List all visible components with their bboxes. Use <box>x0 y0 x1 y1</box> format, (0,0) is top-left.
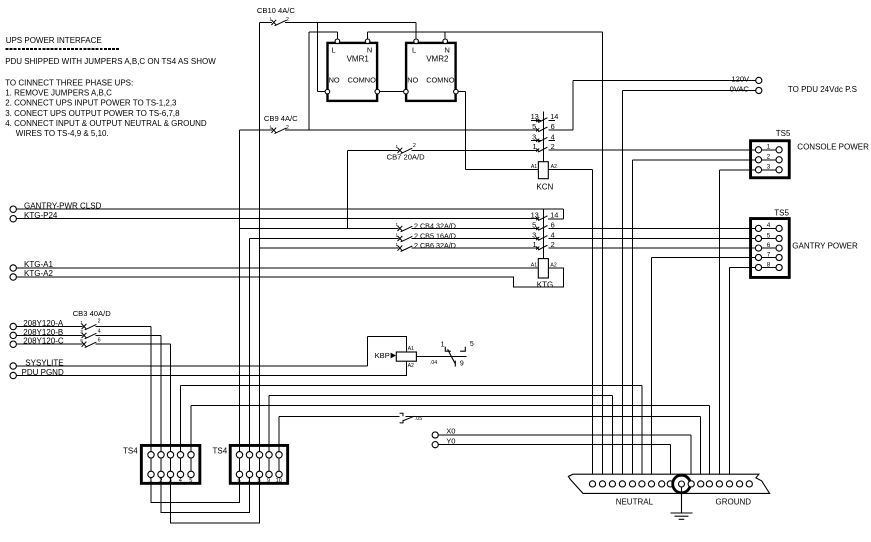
svg-text:A2: A2 <box>551 164 557 170</box>
svg-text:4: 4 <box>767 222 771 229</box>
svg-text:1: 1 <box>396 242 399 247</box>
terminal TS5-5 left <box>755 235 761 241</box>
main bonding jumper circle <box>673 475 691 493</box>
svg-text:KBP: KBP <box>375 351 390 360</box>
wire TS4-1 column riser x=151 <box>150 327 152 475</box>
svg-text:N: N <box>367 46 372 55</box>
terminal TS4-6 top <box>236 452 242 458</box>
terminal TS4-4 top <box>177 452 183 458</box>
wire CB9 output to KCN contact 5 <box>285 129 537 131</box>
circuit breaker CB9 4A/C <box>271 128 286 134</box>
svg-text:NEUTRAL: NEUTRAL <box>616 497 654 506</box>
svg-text:A2: A2 <box>408 363 414 369</box>
terminal TS4-9 top <box>266 452 272 458</box>
terminal TS4-6 bottom <box>236 471 242 477</box>
terminal TS4-8 top <box>256 452 262 458</box>
terminal neutral bus 8 <box>659 481 665 487</box>
wire jumper B TS4-2 to TS4-7 <box>161 474 250 512</box>
contact KCN 4 bar <box>549 139 556 141</box>
terminal KTG-P24 <box>10 216 16 222</box>
circuit breaker CB4 32A/D <box>398 226 413 232</box>
svg-text:.05: .05 <box>415 416 423 422</box>
circuit breaker CB10 4A/C <box>271 20 286 26</box>
terminal COMNO VMR2 <box>454 89 459 94</box>
terminal TS5-6 right <box>776 245 782 251</box>
wire KCN contact6 to 120V riser x=572.9 <box>572 80 574 129</box>
svg-text:9: 9 <box>460 360 464 367</box>
terminal strip TS5 gantry box <box>751 219 790 278</box>
wire TS5-7 to neutral bus x=651.5 <box>651 258 653 481</box>
terminal 0VAC <box>756 87 762 93</box>
terminal TS5-2 left <box>755 157 761 163</box>
wire TS5-2 internal link <box>762 159 776 161</box>
wire 208Y120-B input <box>16 334 82 336</box>
wire CB7 feed riser x=347.4 <box>346 150 348 228</box>
wire KBP contact output y=356.4 <box>416 355 466 357</box>
terminal TS4-7 top <box>246 452 252 458</box>
svg-text:13: 13 <box>531 210 539 219</box>
svg-text:4: 4 <box>551 231 555 240</box>
svg-text:6: 6 <box>551 220 555 229</box>
wire to VMR1 L terminal <box>336 32 338 39</box>
terminal TS4-2 top <box>158 452 164 458</box>
auxiliary switch .05 <box>400 413 415 423</box>
dashed separator <box>6 48 120 50</box>
contact blade KTG 3-4 <box>536 236 547 241</box>
wire TS4-10 to ground bus x=700.7 <box>700 416 702 481</box>
contact KCN 3 bar <box>531 139 541 141</box>
svg-text:TS5: TS5 <box>774 209 789 218</box>
svg-text:1: 1 <box>269 17 272 22</box>
svg-text:GANTRY-PWR CLSD: GANTRY-PWR CLSD <box>24 202 102 211</box>
svg-text:TS4: TS4 <box>213 446 228 455</box>
terminal L VMR1 <box>335 39 340 44</box>
terminal TS5-1 left <box>755 147 761 153</box>
svg-text:6: 6 <box>98 337 101 343</box>
svg-text:1. REMOVE JUMPERS A,B,C: 1. REMOVE JUMPERS A,B,C <box>5 88 112 97</box>
terminal SYSYLITE <box>10 363 16 369</box>
svg-text:GROUND: GROUND <box>716 497 752 506</box>
terminal NO VMR2 <box>404 89 409 94</box>
svg-text:4: 4 <box>98 329 101 335</box>
wire CB3-C output to TS4-3 <box>96 343 171 345</box>
wire N line to neutral bus x=602.5 <box>602 32 604 481</box>
circuit breaker CB7 20A/D <box>398 148 413 154</box>
svg-text:5: 5 <box>80 338 83 343</box>
neutral-ground bus bar <box>568 474 769 493</box>
svg-text:VMR2: VMR2 <box>426 55 449 64</box>
wire TS4-2 column riser x=161 <box>160 335 162 474</box>
svg-text:TO PDU 24Vdc P.S: TO PDU 24Vdc P.S <box>788 85 857 94</box>
svg-text:2: 2 <box>767 154 771 161</box>
ground symbol <box>671 487 693 519</box>
terminal neutral bus 4 <box>619 481 625 487</box>
wire KTG-A2 loop <box>16 268 563 287</box>
terminal TS5-3 right <box>776 167 782 173</box>
svg-text:208Y120-C: 208Y120-C <box>23 337 64 346</box>
wire 208Y120-A input <box>16 326 82 328</box>
svg-text:4: 4 <box>179 478 182 484</box>
wire CB4 output to KTG contact 5 <box>412 227 537 229</box>
terminal TS4-7 bottom <box>246 471 252 477</box>
svg-text:GANTRY POWER: GANTRY POWER <box>792 242 858 251</box>
svg-text:L: L <box>332 46 336 55</box>
contact blade KCN 3-4 <box>536 137 547 142</box>
svg-text:SYSYLITE: SYSYLITE <box>25 358 63 367</box>
terminal neutral bus 1 <box>589 481 595 487</box>
svg-text:4. CONNECT INPUT & OUTPUT NEUT: 4. CONNECT INPUT & OUTPUT NEUTRAL & GROU… <box>5 119 207 128</box>
svg-text:2 CB4 32A/D: 2 CB4 32A/D <box>414 221 456 230</box>
terminal N VMR1 <box>365 39 370 44</box>
svg-text:KTG-A1: KTG-A1 <box>24 260 53 269</box>
wire TS5-7 internal link <box>762 257 776 259</box>
wire TS5-2 to neutral bus x=632.5 <box>632 160 634 481</box>
wire KTG-P24 to KTG contact 13 y=218.7 <box>16 218 537 220</box>
svg-text:5: 5 <box>532 122 536 131</box>
svg-text:3: 3 <box>169 478 172 484</box>
terminal TS4-10 top <box>276 452 282 458</box>
wire TS4-10 ground feed y=416.4 <box>279 415 399 417</box>
terminal neutral bus 3 <box>609 481 615 487</box>
svg-text:CB3 40A/D: CB3 40A/D <box>73 309 112 318</box>
svg-text:8: 8 <box>767 261 771 268</box>
wire KTG contact centerline <box>543 209 545 258</box>
wire TS4-3 column riser x=170.5 <box>170 344 172 474</box>
wire 0VAC to neutral bus x=622.4 <box>621 91 623 481</box>
svg-text:5: 5 <box>767 232 771 239</box>
svg-text:1: 1 <box>532 240 536 249</box>
wire TS4-9 neutral feed y=395.6 <box>269 395 612 397</box>
terminal TS5-7 left <box>755 254 761 260</box>
terminal ground bus 7 <box>746 481 752 487</box>
terminal TS4-8 bottom <box>256 471 262 477</box>
svg-text:N: N <box>445 46 450 55</box>
wire TS5-8 internal link <box>762 267 776 269</box>
relay coil KCN <box>538 162 548 179</box>
svg-text:A2: A2 <box>550 262 556 268</box>
wire TS4-7 column riser x=249.5 <box>249 239 251 475</box>
svg-text:10: 10 <box>276 478 282 484</box>
svg-text:2 CB6 32A/D: 2 CB6 32A/D <box>414 241 456 250</box>
wire X0 y=435 <box>438 434 691 436</box>
svg-text:9: 9 <box>267 478 270 484</box>
wire KCN A2 out <box>548 169 592 171</box>
wire VMR2 COMNO out <box>457 91 466 93</box>
svg-text:2: 2 <box>286 125 289 131</box>
wire TS4-5 ground feed y=405.3 <box>191 404 709 406</box>
wire KTG contact 2 to TS5-6 gantry <box>548 247 755 249</box>
circuit breaker CB3 pole C <box>82 342 97 348</box>
terminal GANTRY-PWR CLSD <box>10 206 16 212</box>
wire TS5-2 console feed <box>633 159 756 161</box>
terminal TS5-4 left <box>755 225 761 231</box>
wire TS5-6 internal link <box>762 247 776 249</box>
svg-text:3: 3 <box>767 164 771 171</box>
terminal 208Y120-B <box>10 332 16 338</box>
terminal TS5-8 left <box>755 264 761 270</box>
wire Y0 y=444.7 <box>438 444 670 446</box>
wire TS4-4 neutral feed y=385.5 <box>181 385 642 387</box>
svg-text:PDU PGND: PDU PGND <box>22 368 64 377</box>
wire CB6 output to KTG contact 1 <box>412 247 537 249</box>
wire stub ground bus spare <box>739 478 741 481</box>
wire TS4-6 column / CB9 feed riser x=239.5 <box>239 130 241 474</box>
terminal TS4-4 bottom <box>177 471 183 477</box>
svg-text:2: 2 <box>551 240 555 249</box>
wire stub ground bus spare <box>748 478 750 481</box>
terminal NO VMR1 <box>325 89 330 94</box>
svg-text:1: 1 <box>149 478 152 484</box>
contact KBP .04 <box>445 347 465 367</box>
svg-text:CONSOLE POWER: CONSOLE POWER <box>797 143 869 152</box>
wire GANTRY-PWR CLSD y=209.2 <box>16 208 563 210</box>
terminal TS5-4 right <box>776 225 782 231</box>
terminal KTG-A2 <box>10 274 16 280</box>
svg-text:6: 6 <box>767 242 771 249</box>
wire CB7 output to KCN contact 1 <box>412 149 537 151</box>
wire stub neutral bus spare <box>661 478 663 481</box>
svg-text:KTG-A2: KTG-A2 <box>24 269 53 278</box>
svg-text:208Y120-B: 208Y120-B <box>23 328 63 337</box>
contact blade KCN 13-14 <box>536 118 547 123</box>
svg-text:5: 5 <box>532 220 536 229</box>
wire SYSYLITE y=366 <box>16 365 367 367</box>
terminal X0 <box>432 432 438 438</box>
terminal TS4-3 top <box>167 452 173 458</box>
svg-text:0VAC: 0VAC <box>730 85 750 94</box>
wire KTG contact 4 to TS5-5 gantry <box>548 238 755 240</box>
terminal TS4-9 bottom <box>266 471 272 477</box>
terminal Y0 <box>432 442 438 448</box>
terminal strip TS5 console box <box>751 141 790 178</box>
wire Y0 to bus x=670.3 <box>669 445 671 481</box>
wire TS4-5 column riser x=191 <box>190 405 192 474</box>
wire TS4-9 to neutral bus x=612.4 <box>611 396 613 481</box>
contact blade KCN 5-6 <box>536 127 547 132</box>
svg-text:X0: X0 <box>446 426 455 435</box>
terminal N VMR2 <box>443 39 448 44</box>
svg-text:6: 6 <box>238 478 241 484</box>
wire KTG contact 6 to TS5-4 gantry <box>548 227 755 229</box>
svg-text:A1: A1 <box>408 346 414 352</box>
terminal neutral bus 9 <box>667 481 673 487</box>
svg-text:7: 7 <box>767 251 771 258</box>
terminal strip TS4 left box <box>141 445 200 483</box>
relay VMR2 box <box>406 43 456 101</box>
svg-text:5: 5 <box>470 341 474 348</box>
svg-text:A1: A1 <box>531 262 537 268</box>
svg-text:NO: NO <box>329 76 340 85</box>
wire PDU PGND to KBP A2 y=375.5 <box>16 361 406 375</box>
terminal ground bus 1 <box>688 481 694 487</box>
svg-text:4: 4 <box>551 132 555 141</box>
contact KCN 14 bar <box>549 120 556 122</box>
wire jumper A TS4-1 to TS4-6 <box>151 474 240 502</box>
wire CB10 output L line y=22.4 <box>285 21 416 23</box>
svg-text:2 CB5 16A/D: 2 CB5 16A/D <box>414 231 456 240</box>
wire TS4-4 column riser x=180.5 <box>180 386 182 475</box>
svg-text:VMR1: VMR1 <box>347 55 370 64</box>
terminal 208Y120-C <box>10 341 16 347</box>
svg-text:13: 13 <box>531 112 539 121</box>
wire VMR1 COMNO to VMR2 NO <box>379 91 405 93</box>
wire TS4-5 to ground bus x=709.4 <box>708 405 710 481</box>
wire CB3-A output to TS4-1 <box>96 326 152 328</box>
wire SYSYLITE to KBP A1 loop <box>368 337 407 366</box>
svg-text:CB7 20A/D: CB7 20A/D <box>387 153 426 162</box>
terminal neutral bus 6 <box>639 481 645 487</box>
wire KTG-A1 y=268 <box>16 267 538 269</box>
svg-text:6: 6 <box>551 122 555 131</box>
svg-text:3: 3 <box>532 231 536 240</box>
wire CB5 input y=238.5 <box>250 238 399 240</box>
terminal ground bus 5 <box>726 481 732 487</box>
svg-text:2. CONNECT UPS INPUT POWER TO: 2. CONNECT UPS INPUT POWER TO TS-1,2,3 <box>5 99 177 108</box>
wire CB10 output to VMR1 NO x=317.5 <box>317 22 319 91</box>
terminal TS4-1 top <box>148 452 154 458</box>
wire TS5-4 internal link <box>762 227 776 229</box>
wire VMR2 COMNO to KCN A1 riser x=465.5 <box>465 92 467 170</box>
svg-text:1: 1 <box>396 232 399 237</box>
terminal ground bus 4 <box>716 481 722 487</box>
wire 0VAC feed y=90.5 <box>622 90 755 92</box>
wire to VMR1 N terminal <box>367 32 369 39</box>
terminal TS4-2 bottom <box>158 471 164 477</box>
svg-text:1: 1 <box>767 144 771 151</box>
wire CB5 output to KTG contact 3 <box>412 238 537 240</box>
terminal ground bus 3 <box>706 481 712 487</box>
svg-text:8: 8 <box>258 478 261 484</box>
wire ground to TS5-8 gantry <box>730 267 756 269</box>
contact blade KCN 1-2 <box>536 147 547 152</box>
svg-text:2: 2 <box>551 142 555 151</box>
terminal ground bus 2 <box>698 481 704 487</box>
wire TS5-8 to ground bus x=729.5 <box>729 268 731 481</box>
terminal TS4-5 bottom <box>188 471 194 477</box>
svg-text:3. CONECT UPS OUTPUT POWER TO: 3. CONECT UPS OUTPUT POWER TO TS-6,7,8 <box>5 109 180 118</box>
terminal TS5-8 right <box>776 264 782 270</box>
terminal TS5-3 left <box>755 167 761 173</box>
wire TS4-10 column riser x=279 <box>278 416 280 474</box>
svg-text:WIRES TO TS-4,9 & 5,10.: WIRES TO TS-4,9 & 5,10. <box>16 129 109 138</box>
wire KCN A1 in <box>466 169 539 171</box>
svg-text:1: 1 <box>441 342 445 349</box>
terminal neutral bus 7 <box>648 481 654 487</box>
wire TS5-5 internal link <box>762 238 776 240</box>
contact blade KTG 13-14 <box>536 216 547 221</box>
circuit breaker CB3 pole B <box>82 333 97 339</box>
wire CB9 output riser x=309 <box>308 32 310 130</box>
svg-text:UPS POWER INTERFACE: UPS POWER INTERFACE <box>6 36 102 45</box>
terminal neutral-ground bond <box>679 481 685 487</box>
svg-text:PDU SHIPPED WITH JUMPERS A,B,C: PDU SHIPPED WITH JUMPERS A,B,C ON TS4 AS… <box>5 57 216 66</box>
wire TS5-3 to ground bus x=719.4 <box>718 170 720 481</box>
terminal TS5-2 right <box>776 157 782 163</box>
terminal KTG-A1 <box>10 265 16 271</box>
svg-text:14: 14 <box>550 210 558 219</box>
terminal TS4-10 bottom <box>276 471 282 477</box>
wire TS4-10 ground feed right of .05 switch <box>406 415 701 417</box>
terminal COMNO VMR1 <box>375 89 380 94</box>
wire TS4-9 column riser x=269 <box>268 396 270 475</box>
terminal TS5-6 left <box>755 245 761 251</box>
wire KCN contact 2 to TS5-1 console <box>548 149 755 151</box>
terminal neutral bus 2 <box>599 481 605 487</box>
wire CB9 input segment y=130.2 <box>240 129 273 131</box>
svg-text:CB9 4A/C: CB9 4A/C <box>264 114 298 123</box>
svg-text:KTG-P24: KTG-P24 <box>24 211 58 220</box>
wire CB10 output to VMR2 L terminal <box>415 22 417 39</box>
wire GANTRY-PWR CLSD loop to KTG contact 14 <box>562 209 564 219</box>
circuit breaker CB6 32A/D <box>398 246 413 252</box>
svg-text:1: 1 <box>396 222 399 227</box>
wire CB4 input y=228.4 <box>240 227 399 229</box>
wire KCN A2 to neutral bus x=592.5 <box>592 170 594 481</box>
wire TS5-3 console feed <box>719 169 755 171</box>
wire jumper C TS4-3 to TS4-8 <box>171 474 260 523</box>
svg-text:KCN: KCN <box>536 183 553 192</box>
wire X0 to ground bus x=691.2 <box>690 435 692 481</box>
svg-text:L: L <box>412 46 416 55</box>
contact blade KTG 1-2 <box>536 245 547 250</box>
svg-text:1: 1 <box>80 320 83 325</box>
wire CB6 input y=248.1 <box>260 247 399 249</box>
svg-text:3: 3 <box>532 132 536 141</box>
svg-text:2: 2 <box>159 478 162 484</box>
terminal TS4-5 top <box>188 452 194 458</box>
svg-text:COMNO: COMNO <box>426 76 455 85</box>
wire CB7 input segment y=150.3 <box>347 149 398 151</box>
relay coil KTG <box>538 259 548 278</box>
svg-text:A1: A1 <box>531 164 537 170</box>
svg-text:5: 5 <box>189 478 192 484</box>
svg-text:7: 7 <box>248 478 251 484</box>
svg-text:TO CINNECT THREE PHASE UPS:: TO CINNECT THREE PHASE UPS: <box>5 78 133 87</box>
circuit breaker CB3 pole A <box>82 324 97 330</box>
svg-text:2: 2 <box>413 143 416 149</box>
wire 120V feed y=80.4 <box>573 79 756 81</box>
terminal 120V <box>756 77 762 83</box>
svg-text:2: 2 <box>286 17 289 23</box>
wire TS4-4 to neutral bus x=641.9 <box>641 386 643 481</box>
svg-text:120V: 120V <box>731 74 750 83</box>
terminal TS5-1 right <box>776 147 782 153</box>
svg-text:Y0: Y0 <box>446 436 455 445</box>
terminal TS5-5 right <box>776 235 782 241</box>
wire 208Y120-C input <box>16 343 82 345</box>
svg-text:1: 1 <box>269 124 272 129</box>
terminal ground bus 6 <box>737 481 743 487</box>
wire to VMR2 N terminal <box>444 32 446 39</box>
svg-text:.04: .04 <box>430 360 437 366</box>
svg-text:CB10 4A/C: CB10 4A/C <box>257 6 296 15</box>
terminal 208Y120-A <box>10 323 16 329</box>
relay coil KBP <box>396 352 416 361</box>
wire TS5-3 internal link <box>762 169 776 171</box>
svg-text:NO: NO <box>407 76 418 85</box>
contact KCN 13 bar <box>531 120 541 122</box>
terminal TS4-3 bottom <box>167 471 173 477</box>
svg-text:TS5: TS5 <box>776 129 791 138</box>
wire KCN contact centerline <box>543 112 545 162</box>
svg-text:2: 2 <box>98 318 101 324</box>
wire TS5-1 internal link <box>762 149 776 151</box>
svg-text:TS4: TS4 <box>123 446 138 455</box>
svg-text:1: 1 <box>396 144 399 149</box>
svg-text:14: 14 <box>550 112 558 121</box>
svg-text:KTG: KTG <box>537 280 553 289</box>
wire N bus VMR1 N to neutral riser y=32.1 <box>368 31 603 33</box>
